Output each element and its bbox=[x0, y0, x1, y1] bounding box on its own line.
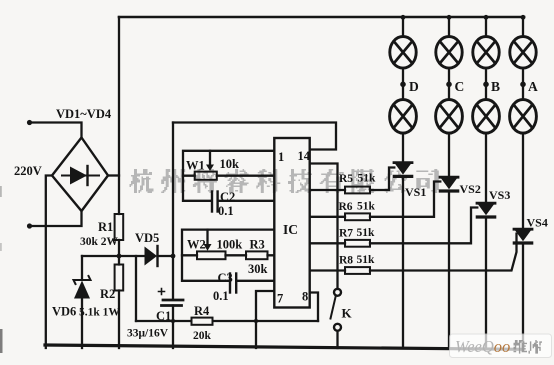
svg-text:0.1: 0.1 bbox=[218, 204, 234, 218]
lamp C1 bbox=[436, 37, 462, 69]
svg-text:5.1k 1W: 5.1k 1W bbox=[79, 307, 120, 319]
capacitor C1 plates bbox=[159, 289, 184, 306]
zener VD6 bbox=[74, 276, 91, 299]
wire D mid bbox=[402, 68, 404, 99]
W2 wiper arrow bbox=[204, 230, 212, 251]
scan edge artifacts bbox=[0, 329, 3, 353]
thyristor VS1 bbox=[394, 163, 412, 177]
node B junction bbox=[483, 82, 489, 88]
node pin7 bottom junction bbox=[254, 319, 258, 323]
svg-text:33μ/16V: 33μ/16V bbox=[127, 328, 169, 340]
wire C mid bbox=[448, 68, 450, 99]
wire left vertical from top rail to R1 bbox=[118, 17, 120, 214]
wire R7 row bbox=[310, 208, 478, 244]
svg-text:VS1: VS1 bbox=[405, 185, 426, 199]
svg-text:R1: R1 bbox=[98, 220, 113, 234]
lamp C2 bbox=[436, 100, 463, 134]
svg-text:0.1: 0.1 bbox=[213, 289, 229, 303]
svg-text:C2: C2 bbox=[220, 190, 235, 204]
wire anode tap down to bottom wire bbox=[135, 256, 137, 321]
wire bridge right vertex to left vertical bbox=[108, 174, 119, 176]
bridge internal diode bbox=[62, 166, 99, 185]
box2 W2/R3/C3 outline bbox=[182, 230, 274, 281]
svg-text:51k: 51k bbox=[357, 254, 376, 266]
node C junction bbox=[446, 82, 452, 88]
wire timer supply vertical x173 bbox=[172, 123, 174, 299]
svg-text:100k: 100k bbox=[217, 238, 243, 252]
wire top rail bbox=[119, 16, 524, 19]
wire R2 bottom to rail bbox=[118, 291, 120, 349]
node D junction bbox=[400, 82, 406, 88]
resistor R8 bbox=[345, 267, 370, 274]
svg-text:VD1~VD4: VD1~VD4 bbox=[56, 107, 112, 121]
wire W2 row bbox=[182, 254, 274, 256]
svg-text:R8: R8 bbox=[339, 255, 353, 267]
resistor R4 bbox=[192, 318, 213, 325]
wire B mid bbox=[485, 68, 487, 99]
wire AC1 to bridge top bbox=[30, 123, 82, 138]
thyristor VS2 bbox=[440, 177, 458, 191]
wire VD5 cathode to C1 column bbox=[158, 255, 174, 257]
lamp A2 bbox=[510, 100, 537, 134]
node C1 bottom junction bbox=[171, 319, 175, 323]
watermark center company text bbox=[130, 169, 439, 193]
svg-text:R7: R7 bbox=[339, 228, 353, 240]
wire node down to VD6 bbox=[81, 256, 83, 278]
potentiometer W1 bbox=[195, 172, 217, 180]
wire R6 row bbox=[310, 182, 441, 217]
lamp D1 bbox=[390, 37, 416, 69]
svg-text:K: K bbox=[342, 306, 353, 321]
svg-text:C3: C3 bbox=[218, 271, 233, 285]
svg-text:R2: R2 bbox=[100, 287, 115, 301]
svg-text:VS3: VS3 bbox=[489, 188, 510, 202]
resistor R5 bbox=[345, 187, 370, 194]
wire pin8 stub bbox=[310, 293, 318, 322]
wire pin13 K bus bbox=[310, 164, 338, 290]
wire R1 to junction bbox=[118, 240, 120, 256]
wire VS2 cathode to rail bbox=[448, 192, 450, 348]
svg-text:VS2: VS2 bbox=[460, 182, 481, 196]
svg-text:51k: 51k bbox=[358, 173, 377, 185]
wire pin14 top bbox=[173, 123, 336, 150]
resistor R2 bbox=[115, 265, 124, 291]
watermark WeeQoo box bbox=[450, 334, 552, 358]
svg-text:1: 1 bbox=[278, 150, 284, 164]
wire D to VS1 bbox=[402, 133, 404, 162]
capacitor C2 bbox=[212, 192, 218, 212]
svg-text:VS4: VS4 bbox=[527, 216, 548, 230]
svg-text:R5: R5 bbox=[339, 173, 353, 185]
wire bridge left vertex down to bottom rail bbox=[46, 176, 52, 349]
wire R5 row bbox=[310, 168, 395, 191]
svg-text:220V: 220V bbox=[14, 164, 42, 178]
resistor R1 bbox=[115, 214, 124, 240]
wire bottom rail bbox=[45, 345, 522, 349]
lamp column B stub bbox=[485, 17, 487, 37]
lamp column D stub bbox=[402, 17, 404, 37]
switch K bbox=[331, 289, 342, 348]
lamp B2 bbox=[473, 100, 500, 134]
svg-text:R4: R4 bbox=[194, 304, 210, 318]
node AC1 terminal dot bbox=[27, 120, 32, 125]
box1 W1/C2 outline bbox=[183, 151, 274, 201]
wire R2 top bbox=[118, 256, 120, 265]
lamp D2 bbox=[390, 100, 417, 134]
resistor R3 bbox=[246, 251, 268, 259]
lamp column C stub bbox=[448, 17, 450, 37]
W1 wiper arrow bbox=[206, 151, 214, 171]
node A junction bbox=[520, 82, 526, 88]
resistor R6 bbox=[345, 213, 370, 220]
node VD5/C1 junction bbox=[171, 254, 176, 259]
wire VS1 cathode to rail bbox=[402, 178, 404, 348]
svg-text:51k: 51k bbox=[357, 227, 376, 239]
lamp column A stub bbox=[522, 17, 524, 37]
wire bottom horizontal (R4 row) bbox=[136, 320, 318, 322]
svg-text:A: A bbox=[528, 79, 538, 94]
wire A mid bbox=[522, 68, 524, 99]
svg-text:D: D bbox=[409, 79, 419, 94]
wire VS3 cathode to rail bbox=[485, 218, 487, 348]
svg-text:VD5: VD5 bbox=[135, 231, 159, 245]
lamp B1 bbox=[473, 37, 499, 69]
wire AC2 to bridge bottom bbox=[30, 211, 82, 226]
svg-text:B: B bbox=[491, 79, 500, 94]
svg-text:WeeQoo: WeeQoo bbox=[455, 337, 510, 356]
svg-text:14: 14 bbox=[298, 149, 311, 163]
wire R8 row bbox=[310, 234, 517, 271]
wire node to VD5 bbox=[82, 255, 145, 257]
svg-text:20k: 20k bbox=[193, 330, 212, 342]
diode VD5 bbox=[145, 246, 158, 266]
wire C1 bottom to rail bbox=[172, 306, 174, 349]
svg-text:10k: 10k bbox=[220, 157, 240, 171]
svg-text:W2: W2 bbox=[187, 238, 206, 252]
wire VD6 to rail bbox=[81, 299, 83, 349]
bridge rectifier VD1~VD4 diamond bbox=[52, 138, 108, 212]
svg-text:R6: R6 bbox=[339, 201, 353, 213]
wire B to VS3 bbox=[485, 133, 487, 202]
svg-text:VD6: VD6 bbox=[52, 305, 76, 319]
wire W1 row bbox=[183, 175, 274, 177]
svg-text:C: C bbox=[455, 79, 465, 94]
lamp A1 bbox=[510, 37, 536, 69]
svg-text:R3: R3 bbox=[250, 238, 265, 252]
thyristor VS4 bbox=[514, 229, 532, 243]
node AC2 terminal dot bbox=[27, 223, 32, 228]
svg-text:8: 8 bbox=[302, 290, 308, 304]
potentiometer W2 bbox=[197, 251, 226, 259]
svg-text:30k: 30k bbox=[248, 262, 268, 276]
op-amp U1: IC box bbox=[274, 138, 309, 308]
thyristor VS3 bbox=[477, 203, 495, 217]
wire C to VS2 bbox=[448, 133, 450, 176]
svg-text:51k: 51k bbox=[357, 201, 376, 213]
node top rail junction dots bbox=[401, 15, 406, 20]
svg-text:IC: IC bbox=[283, 222, 298, 237]
svg-text:30k 2W: 30k 2W bbox=[80, 236, 119, 248]
svg-text:7: 7 bbox=[277, 292, 283, 306]
wire A to VS4 bbox=[522, 133, 524, 228]
wire VS4 cathode to rail bbox=[522, 244, 524, 348]
resistor R7 bbox=[345, 240, 370, 247]
svg-text:C1: C1 bbox=[156, 309, 171, 323]
capacitor C3 bbox=[230, 274, 236, 293]
wire pin7 stub bbox=[256, 291, 274, 348]
svg-text:W1: W1 bbox=[186, 159, 205, 173]
node junction R1/R2 bbox=[117, 254, 122, 259]
